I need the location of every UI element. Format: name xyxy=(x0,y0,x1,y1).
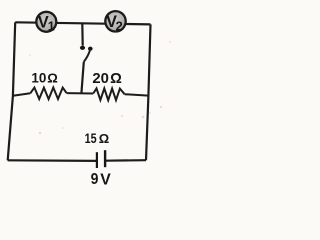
wire bottom rail right xyxy=(105,159,146,162)
resistor R1 10 ohm xyxy=(30,88,66,100)
svg-text:Ω: Ω xyxy=(110,71,122,87)
wire right border xyxy=(146,24,151,160)
wire middle rail right xyxy=(125,94,149,95)
wire bottom rail left xyxy=(8,159,97,162)
wire middle rail left xyxy=(13,93,30,96)
svg-text:20: 20 xyxy=(92,71,109,87)
resistor R2 20 ohm xyxy=(93,88,124,100)
switch lever (open) xyxy=(84,50,90,61)
switch contact dot right xyxy=(88,47,93,51)
voltmeter V1 xyxy=(36,12,56,34)
wire middle rail center xyxy=(67,92,94,94)
svg-text:15: 15 xyxy=(85,130,97,146)
svg-text:V: V xyxy=(100,171,111,188)
wire switch drop from top rail xyxy=(81,23,84,45)
svg-text:Ω: Ω xyxy=(47,71,58,86)
svg-text:9: 9 xyxy=(91,171,99,188)
battery 9V plate right xyxy=(104,150,106,167)
svg-text:1: 1 xyxy=(48,19,55,33)
battery 9V plate left xyxy=(96,152,98,168)
wire left border xyxy=(8,22,16,160)
wire switch to middle rail xyxy=(81,62,83,94)
switch contact dot left xyxy=(80,46,85,50)
svg-text:2: 2 xyxy=(116,18,123,33)
wire top rail xyxy=(15,22,150,24)
voltmeter V2 xyxy=(105,11,125,33)
svg-text:10: 10 xyxy=(31,71,46,87)
svg-text:Ω: Ω xyxy=(99,131,109,146)
